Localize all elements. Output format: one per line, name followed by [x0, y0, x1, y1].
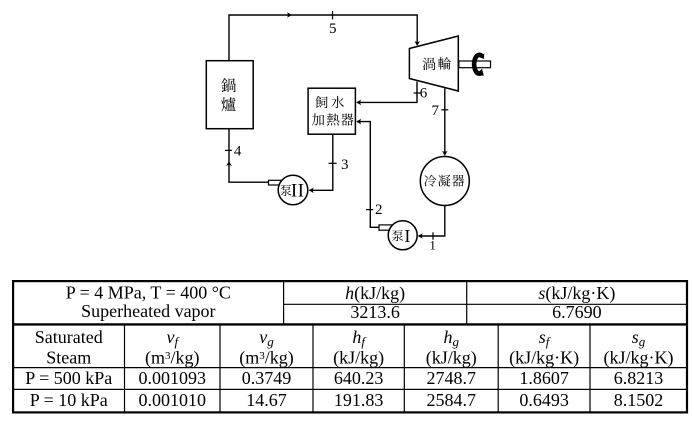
boiler box [206, 61, 253, 129]
arrow into heater upper inlet [356, 100, 361, 106]
svg-text:(m3/kg): (m3/kg) [239, 348, 294, 369]
svg-text:1: 1 [429, 237, 436, 252]
arrow into pump II [309, 188, 314, 194]
svg-text:0.001093: 0.001093 [139, 368, 207, 388]
pump II circle [278, 175, 308, 205]
svg-text:Superheated vapor: Superheated vapor [81, 301, 215, 321]
arrow into turbine inlet [414, 41, 420, 46]
table top verticals [283, 281, 285, 324]
svg-text:2748.7: 2748.7 [427, 368, 477, 388]
svg-text:(kJ/kg·K): (kJ/kg·K) [509, 348, 579, 369]
svg-text:191.83: 191.83 [334, 390, 384, 410]
svg-text:1.8607: 1.8607 [519, 368, 569, 388]
svg-text:3213.6: 3213.6 [350, 302, 400, 322]
svg-text:6.7690: 6.7690 [552, 302, 602, 322]
node 7 tick [441, 109, 448, 111]
turbine body [409, 36, 458, 91]
node 5 tick [332, 11, 334, 19]
turbine shaft [459, 61, 491, 68]
heater label char 飼 [315, 96, 327, 108]
svg-text:0.3749: 0.3749 [242, 368, 292, 388]
svg-text:P = 4 MPa, T = 400 °C: P = 4 MPa, T = 400 °C [66, 283, 231, 303]
heater label char 水 [331, 96, 344, 108]
condenser label char 凝 [438, 175, 450, 187]
boiler label char 爐 [221, 97, 236, 111]
svg-text:Saturated: Saturated [35, 327, 103, 347]
feedwater heater box [308, 88, 355, 134]
turbine label char 渦 [423, 58, 436, 71]
wire pump I to feedwater heater (line 2) [357, 122, 380, 228]
wire boiler bottom from pump II (line 4) [229, 129, 269, 183]
svg-text:6.8213: 6.8213 [614, 368, 664, 388]
arrow into heater lower inlet [356, 119, 361, 125]
shaft rotation arrow [474, 55, 482, 74]
svg-text:2584.7: 2584.7 [427, 390, 477, 410]
node 3 tick [329, 162, 337, 164]
pump I label char 泵 [392, 230, 403, 241]
svg-text:(kJ/kg): (kJ/kg) [333, 348, 384, 369]
wire turbine exhaust to condenser (line 7) [444, 89, 446, 156]
condenser circle [420, 157, 469, 206]
condenser label char 器 [452, 175, 464, 187]
table outer border [13, 281, 687, 412]
svg-text:0.6493: 0.6493 [519, 390, 569, 410]
condenser label char 冷 [424, 175, 436, 187]
table section divider [13, 323, 687, 325]
wire turbine extraction to feedwater heater (line 6) [357, 82, 417, 103]
node 4 tick [225, 149, 232, 151]
svg-text:3: 3 [341, 157, 349, 173]
svg-text:s(kJ/kg·K): s(kJ/kg·K) [538, 283, 615, 304]
node 2 tick [366, 209, 373, 211]
table bottom verticals [124, 324, 126, 412]
flow arrow up on wire 4 [226, 161, 232, 166]
arrow into pump I [418, 233, 423, 239]
svg-text:hg: hg [444, 327, 460, 349]
svg-text:640.23: 640.23 [334, 368, 384, 388]
node 6 tick [414, 92, 421, 94]
svg-text:I: I [404, 226, 410, 246]
table top h/s divider [284, 303, 687, 305]
svg-text:4: 4 [234, 143, 242, 159]
pump I circle [388, 221, 417, 250]
svg-text:P = 500 kPa: P = 500 kPa [25, 368, 112, 388]
svg-text:6: 6 [420, 86, 428, 102]
svg-text:vg: vg [259, 327, 274, 349]
svg-text:vf: vf [166, 327, 180, 349]
arrow into condenser [442, 151, 448, 156]
svg-text:hf: hf [352, 327, 367, 349]
flow arrow on wire 5 [287, 12, 292, 18]
svg-text:sf: sf [539, 327, 552, 349]
table bottom horizontals [13, 367, 687, 369]
svg-text:2: 2 [375, 202, 383, 218]
svg-text:h(kJ/kg): h(kJ/kg) [345, 283, 405, 304]
svg-text:8.1502: 8.1502 [614, 390, 664, 410]
svg-text:(kJ/kg): (kJ/kg) [426, 348, 477, 369]
pump II inlet stub [269, 180, 283, 185]
svg-text:sg: sg [632, 327, 646, 349]
svg-text:0.001010: 0.001010 [139, 390, 207, 410]
svg-text:P = 10 kPa: P = 10 kPa [30, 390, 108, 410]
svg-text:(kJ/kg·K): (kJ/kg·K) [604, 348, 674, 369]
svg-text:7: 7 [431, 103, 439, 119]
svg-text:II: II [291, 180, 304, 201]
svg-text:5: 5 [329, 21, 337, 37]
heater label char 加 [312, 113, 324, 125]
wire boiler top to turbine (line 5) [229, 15, 417, 61]
pump I inlet stub [379, 225, 392, 230]
heater label char 熱 [327, 113, 339, 125]
svg-text:Steam: Steam [46, 348, 91, 368]
svg-text:14.67: 14.67 [246, 390, 287, 410]
wire condenser to pump I (line 1) [419, 206, 445, 237]
turbine label char 輪 [438, 57, 451, 70]
heater label char 器 [341, 113, 353, 125]
pump II label char 泵 [280, 185, 291, 196]
svg-text:(m3/kg): (m3/kg) [145, 348, 200, 369]
node 1 tick [432, 232, 434, 239]
wire heater outlet to pump II (line 3) [310, 134, 333, 190]
boiler label char 鍋 [221, 78, 236, 92]
